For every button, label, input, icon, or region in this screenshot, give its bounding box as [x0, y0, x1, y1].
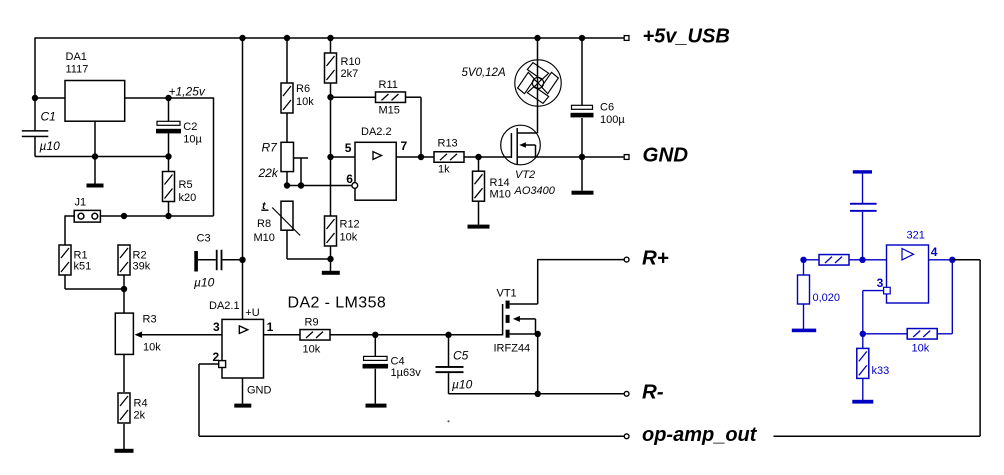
- blue wire feedback: [863, 333, 953, 335]
- capacitor C5: [436, 335, 473, 392]
- wire R5 bottom: [168, 202, 170, 217]
- terminal R+: [624, 247, 669, 270]
- node R14 junction: [475, 154, 481, 160]
- ground R4: [115, 449, 134, 453]
- svg-text:10µ: 10µ: [183, 134, 202, 146]
- svg-text:10k: 10k: [912, 343, 930, 355]
- svg-text:+5v_USB: +5v_USB: [643, 26, 730, 48]
- node DA1 gnd junction: [92, 153, 98, 159]
- terminal +5v_USB: [624, 26, 730, 48]
- wire DA1 output to +1,25v node: [125, 97, 214, 99]
- node pin7/R11 junction: [418, 154, 424, 160]
- blue pin 4 label: [931, 245, 938, 259]
- wire R8 bottom: [286, 230, 288, 259]
- node C2 bottom junction: [165, 153, 171, 159]
- node R2/R3 junction: [121, 286, 127, 292]
- wire pin2 to out column: [199, 364, 219, 436]
- node DA1 input junction: [32, 95, 38, 101]
- blue shunt resistor 0,020: [798, 260, 841, 304]
- wire C4 bottom: [374, 369, 376, 404]
- blue op-amp 321 box: [887, 230, 929, 304]
- svg-text:op-amp_out: op-amp_out: [642, 424, 758, 446]
- wire VT1 substrate arrow: [513, 316, 536, 334]
- terminal op-amp_out: [624, 424, 758, 446]
- node R- junction: [535, 391, 541, 397]
- wire DA2.1 gnd stem: [242, 378, 244, 404]
- wire DA1 gnd pin: [94, 121, 96, 183]
- svg-text:µ10: µ10: [452, 378, 473, 392]
- pin 6 inverting circle: [352, 183, 358, 189]
- ground DA1: [87, 184, 104, 188]
- wire R8 to R12 gnd link: [287, 258, 331, 260]
- blue wire input rail: [804, 259, 887, 261]
- node junction top rail / C3 column: [239, 35, 245, 41]
- wire DA2.1 out to R9: [263, 334, 300, 336]
- node junction top rail / C6 column: [579, 35, 585, 41]
- blue wire feedback vertical: [951, 260, 953, 334]
- blue wire shunt gnd: [803, 304, 805, 329]
- blue resistor 10k: [907, 329, 937, 355]
- blue capacitor: [850, 203, 877, 260]
- wire VT1 source: [510, 333, 538, 335]
- wire +U column: [242, 37, 244, 319]
- svg-text:M15: M15: [379, 105, 400, 117]
- node C5 junction: [445, 332, 451, 338]
- blue node cap junction: [859, 257, 865, 263]
- node pin5 junction: [327, 154, 333, 160]
- terminal R-: [624, 380, 664, 403]
- svg-text:10k: 10k: [303, 344, 321, 356]
- ground R14: [468, 225, 490, 229]
- wire op-amp_out rail: [199, 435, 624, 437]
- wire pin 6 line: [287, 185, 352, 187]
- svg-text:M10: M10: [490, 189, 511, 201]
- wire R4 bottom: [123, 424, 125, 449]
- terminal GND: [624, 143, 688, 166]
- svg-text:J1: J1: [75, 197, 87, 209]
- svg-text:R4: R4: [134, 398, 148, 410]
- node R7/R8 junction: [284, 182, 290, 188]
- node junction top rail / fan column: [534, 35, 540, 41]
- svg-text:GND: GND: [247, 385, 272, 397]
- svg-text:10k: 10k: [296, 96, 314, 108]
- svg-text:1117: 1117: [66, 64, 89, 76]
- node junction top rail / R10 column: [327, 35, 333, 41]
- svg-text:4: 4: [931, 245, 938, 259]
- svg-text:C3: C3: [197, 233, 211, 245]
- svg-text:R10: R10: [341, 56, 361, 68]
- wire R- rail: [449, 393, 624, 395]
- resistor R1 k51: [59, 245, 91, 275]
- blue power bar: [853, 170, 872, 203]
- resistor R10 2k7: [325, 53, 361, 83]
- text DA2 - LM358: [288, 295, 387, 312]
- svg-text:R6: R6: [296, 83, 310, 95]
- svg-text:7: 7: [401, 139, 408, 153]
- wire C1 bottom to ground line: [34, 137, 36, 157]
- resistor R5 k20: [163, 172, 197, 205]
- node VT1 source junction: [535, 331, 541, 337]
- blue wire pin3: [863, 291, 884, 334]
- transistor VT2 gate line: [510, 133, 512, 158]
- resistor R13 1k: [434, 138, 464, 176]
- wire pin 7: [396, 156, 434, 158]
- svg-text:0,020: 0,020: [813, 292, 841, 304]
- pin 6 label DA2.2: [346, 172, 353, 186]
- wire C6 bottom: [581, 118, 583, 191]
- wire C2 top stem: [168, 98, 170, 121]
- svg-text:22k: 22k: [258, 166, 279, 180]
- blue resistor k33: [857, 348, 889, 378]
- svg-text:R9: R9: [305, 317, 319, 329]
- op-amp DA2.2 box: [355, 126, 396, 200]
- svg-text:39k: 39k: [133, 261, 151, 273]
- ground C6: [572, 191, 594, 195]
- capacitor C4 1u63v: [363, 335, 422, 379]
- ground C4: [366, 404, 387, 408]
- wire R1-R2 bottom link: [65, 288, 124, 290]
- pin 3 label DA2.1: [213, 320, 220, 334]
- svg-text:C1: C1: [41, 110, 56, 124]
- capacitor C6 100u: [571, 38, 626, 126]
- op-amp DA2.1 box: [209, 300, 264, 378]
- pin 2 label DA2.1: [213, 350, 220, 364]
- svg-text:R12: R12: [340, 219, 360, 231]
- resistor R4 2k: [118, 393, 148, 423]
- pin 1 label DA2.1: [267, 320, 274, 334]
- wire R7 wiper tap: [294, 158, 309, 186]
- wire R2 to R3: [123, 289, 125, 313]
- transistor VT2 channel line: [516, 128, 518, 164]
- wire +1,25v down right side: [213, 97, 215, 216]
- svg-text:+1,25v: +1,25v: [169, 85, 206, 99]
- wire left vertical from +5v rail to C1: [34, 37, 36, 131]
- wire R6 top stem: [286, 38, 288, 83]
- wire R7 bottom: [286, 172, 288, 186]
- node C3 junction: [239, 257, 245, 263]
- resistor R14 M10: [473, 171, 511, 201]
- svg-text:R13: R13: [438, 138, 458, 150]
- svg-text:DA2.1: DA2.1: [209, 300, 240, 312]
- capacitor C1: [22, 110, 60, 153]
- node junction top rail / R6 column: [284, 35, 290, 41]
- wire op-amp_out to blue circuit: [774, 260, 981, 437]
- svg-text:DA2 - LM358: DA2 - LM358: [288, 295, 387, 312]
- node R12 gnd junction: [327, 256, 333, 262]
- svg-text:1: 1: [267, 320, 274, 334]
- svg-text:10k: 10k: [340, 232, 358, 244]
- transistor VT1 channel segments: [506, 301, 510, 338]
- blue pin 3 square: [884, 287, 891, 294]
- potentiometer R7 22k: [258, 141, 294, 181]
- node R7 wiper junction: [298, 182, 304, 188]
- wire out to black link: [952, 259, 980, 261]
- svg-text:VT1: VT1: [497, 288, 517, 300]
- pin 5 label DA2.2: [345, 141, 352, 155]
- wire VT2 source to GND rail: [517, 156, 624, 158]
- svg-text:3: 3: [213, 320, 220, 334]
- fan 5V0,12A: [462, 60, 562, 106]
- svg-text:VT2: VT2: [515, 169, 535, 181]
- transistor VT1 IRFZ44 gate: [494, 288, 531, 355]
- ground DA2.1: [234, 404, 251, 408]
- svg-text:µ10: µ10: [194, 276, 215, 290]
- wire R6 to R7: [286, 113, 288, 142]
- svg-text:k20: k20: [179, 192, 197, 204]
- node R10/R11 junction: [327, 94, 333, 100]
- svg-text:C4: C4: [391, 356, 405, 368]
- wire DA1 input: [35, 97, 65, 99]
- wire pin 5: [331, 156, 356, 158]
- wire R11 right down to pin7: [406, 97, 421, 157]
- pin 7 label DA2.2: [401, 139, 408, 153]
- resistor R6 10k: [281, 83, 314, 113]
- svg-text:1µ63v: 1µ63v: [391, 367, 422, 379]
- blue node k33 junction: [860, 331, 866, 337]
- wire ground line DA1: [35, 156, 169, 158]
- svg-text:+U: +U: [245, 307, 259, 319]
- blue pin 3 label: [877, 276, 884, 290]
- svg-text:5: 5: [345, 141, 352, 155]
- svg-text:3: 3: [877, 276, 884, 290]
- node R5 bottom junction: [165, 213, 171, 219]
- svg-text:k51: k51: [74, 261, 92, 273]
- svg-text:DA2.2: DA2.2: [361, 126, 392, 138]
- wire VT1 drain: [510, 260, 538, 304]
- wire J1 row: [65, 215, 214, 217]
- svg-text:R+: R+: [642, 247, 669, 270]
- svg-text:R5: R5: [179, 179, 193, 191]
- node C6 bottom junction: [579, 154, 585, 160]
- blue wire k33 stems: [862, 334, 864, 400]
- wire R14 top stem: [478, 157, 480, 171]
- regulator DA1 1117 box: [65, 51, 125, 121]
- wire R9 to VT1 gate: [330, 334, 503, 336]
- wire R11 left: [331, 96, 376, 98]
- blue wire pin4 out: [929, 259, 954, 261]
- svg-text:R7: R7: [262, 141, 279, 155]
- blue resistor input: [819, 255, 849, 265]
- svg-text:C6: C6: [600, 102, 614, 114]
- svg-text:1k: 1k: [438, 164, 450, 176]
- wire R10 top stem: [330, 38, 332, 53]
- blue node shunt junction: [800, 257, 806, 263]
- svg-text:AO3400: AO3400: [514, 185, 556, 197]
- wire R3 bottom: [123, 354, 125, 392]
- thermistor R8 M10: [254, 200, 301, 244]
- ground R8/R12: [322, 271, 340, 275]
- svg-text:2k7: 2k7: [341, 68, 359, 80]
- svg-text:2k: 2k: [134, 410, 146, 422]
- resistor R2 39k: [118, 245, 151, 275]
- pin 2 inverting square: [219, 361, 226, 368]
- capacitor C2 10u: [156, 121, 203, 146]
- blue ground k33: [852, 400, 873, 404]
- wire J1 left down to R1: [64, 215, 66, 245]
- svg-text:R3: R3: [143, 314, 157, 326]
- svg-text:DA1: DA1: [66, 51, 87, 63]
- wire C5 bottom to R- rail: [448, 373, 450, 394]
- node +1,25v junction at C2: [165, 85, 206, 102]
- wire R1 bottom: [64, 275, 66, 289]
- svg-text:R-: R-: [642, 380, 664, 403]
- svg-text:k33: k33: [872, 365, 890, 377]
- svg-text:100µ: 100µ: [600, 114, 625, 126]
- svg-text:GND: GND: [643, 143, 689, 166]
- wire R2 bottom: [123, 275, 125, 289]
- wire VT2 substrate arrow: [519, 142, 535, 157]
- svg-text:IRFZ44: IRFZ44: [494, 343, 531, 355]
- svg-text:R11: R11: [379, 79, 398, 91]
- svg-text:R14: R14: [490, 177, 510, 189]
- svg-text:10k: 10k: [143, 342, 161, 354]
- svg-text:5V0,12A: 5V0,12A: [462, 67, 506, 79]
- wire R10 bottom to R12: [330, 83, 332, 216]
- blue ground shunt: [792, 329, 816, 333]
- wire R+ rail: [537, 259, 624, 261]
- capacitor C3: [194, 233, 243, 290]
- potentiometer R3 10k: [115, 313, 161, 354]
- transistor VT2 AO3400 circle: [501, 125, 556, 197]
- wire R3 wiper arrow: [135, 332, 222, 338]
- stray mark: [447, 420, 449, 422]
- resistor R9 10k: [300, 317, 330, 356]
- svg-text:µ10: µ10: [40, 139, 61, 153]
- wire R13 to VT2 gate: [464, 156, 511, 158]
- svg-text:C5: C5: [453, 348, 469, 362]
- wire C2 bottom to R5: [168, 133, 170, 171]
- wire VT1 source down to R-: [537, 334, 539, 394]
- svg-text:R8: R8: [257, 218, 271, 230]
- svg-text:M10: M10: [254, 232, 275, 244]
- svg-text:321: 321: [907, 230, 925, 242]
- connector J1: [74, 197, 100, 223]
- resistor R12 10k: [325, 216, 360, 246]
- resistor R11 M15: [376, 79, 406, 117]
- wire R14 bottom: [478, 201, 480, 224]
- wire R12 bottom: [330, 246, 332, 271]
- wire VT2 drain: [517, 37, 537, 133]
- svg-text:C2: C2: [183, 121, 197, 133]
- node R2 top junction: [121, 213, 127, 219]
- wire +5v_USB top rail: [35, 37, 624, 39]
- text GND label DA2.1: [247, 385, 272, 397]
- node C4 junction: [372, 332, 378, 338]
- blue node out junction: [949, 257, 955, 263]
